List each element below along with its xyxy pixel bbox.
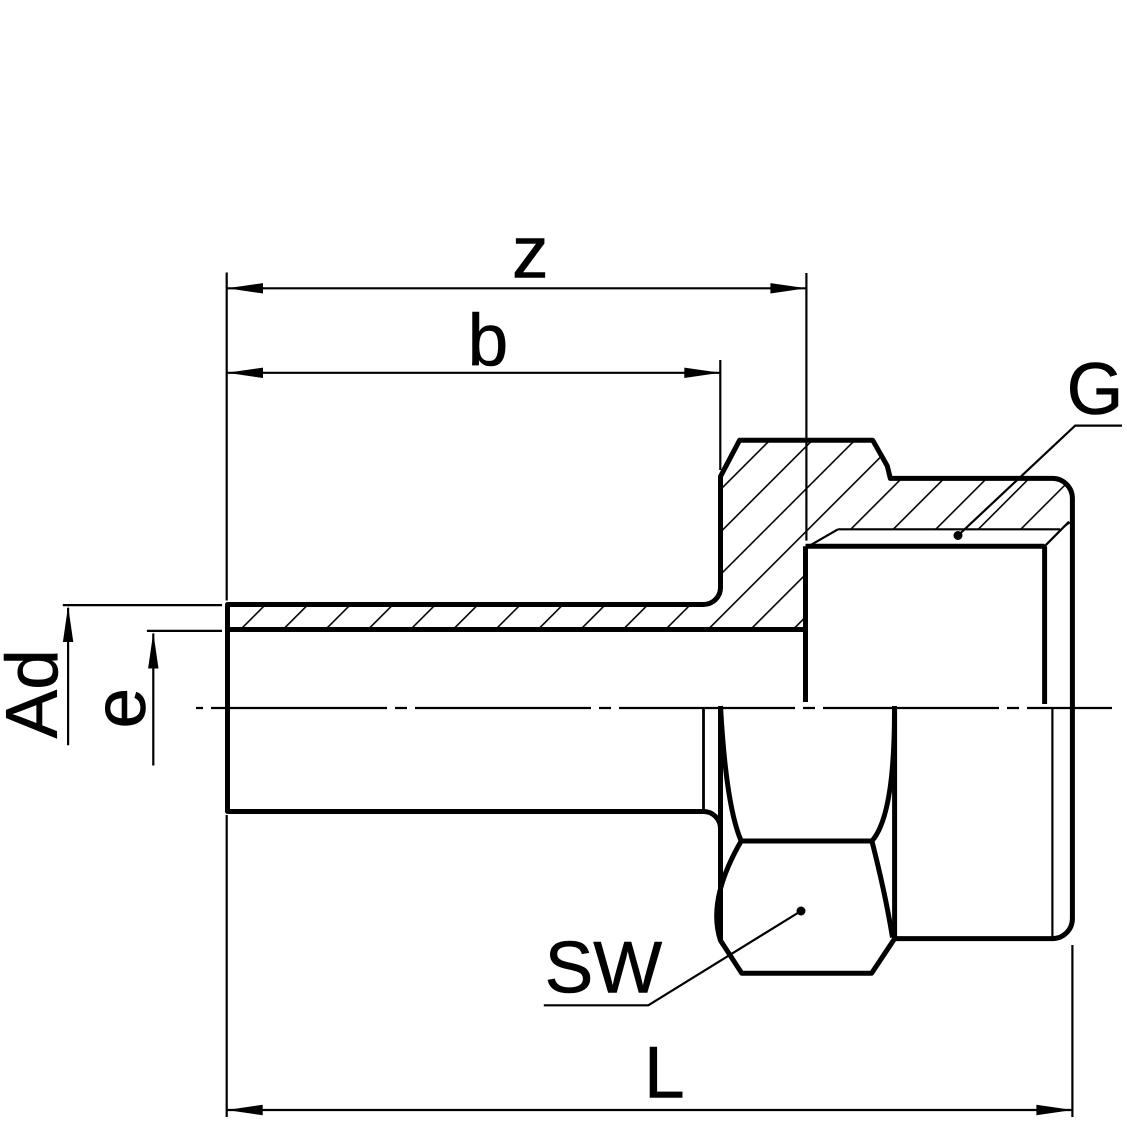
- svg-text:L: L: [644, 1033, 685, 1114]
- svg-text:G: G: [1067, 349, 1124, 430]
- svg-text:z: z: [512, 213, 549, 294]
- svg-text:e: e: [80, 688, 161, 729]
- svg-text:Ad: Ad: [0, 649, 73, 738]
- svg-text:SW: SW: [545, 928, 663, 1009]
- svg-text:b: b: [468, 300, 509, 381]
